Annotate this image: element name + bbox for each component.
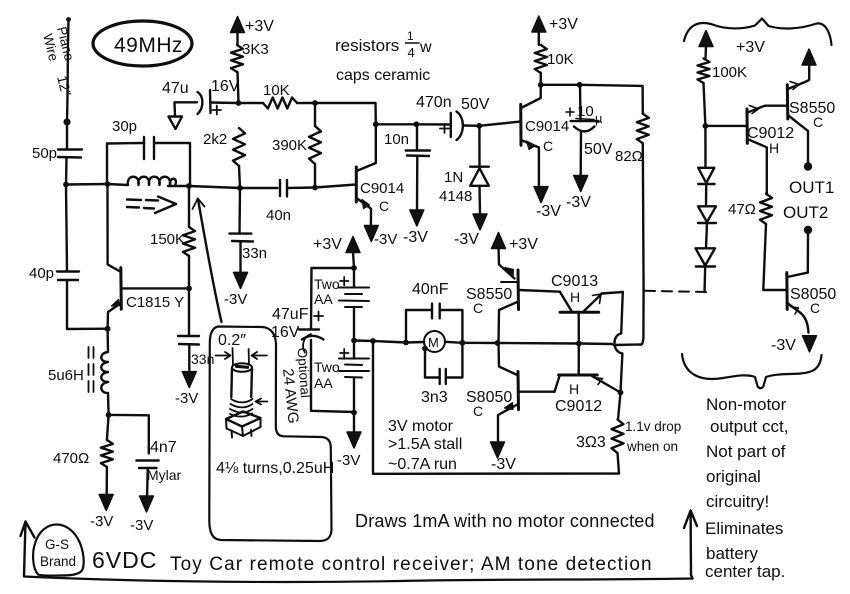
svg-text:470Ω: 470Ω bbox=[53, 450, 89, 467]
wire bias node to 10K bbox=[239, 102, 264, 104]
wire 2k2 to tank bbox=[239, 166, 240, 188]
svg-text:Non-motor: Non-motor bbox=[706, 395, 787, 414]
svg-text:50V: 50V bbox=[461, 96, 490, 113]
resistor 10K stage2 bbox=[535, 45, 547, 73]
node 5u6H bottom bbox=[106, 412, 112, 418]
resistor 82R bbox=[637, 114, 649, 144]
svg-text:OUT2: OUT2 bbox=[783, 203, 828, 222]
node OUT2 bbox=[804, 226, 812, 234]
label 50V stage2 bbox=[584, 141, 613, 158]
svg-text:Toy Car remote control receive: Toy Car remote control receiver; AM tone… bbox=[170, 554, 653, 575]
label C9012 output bbox=[747, 125, 794, 142]
label 49MHz text bbox=[114, 34, 183, 57]
capacitor 10n plates bbox=[406, 151, 430, 157]
label 4148 bbox=[439, 188, 472, 205]
svg-text:-3V: -3V bbox=[536, 203, 561, 220]
node 10K/390K bbox=[312, 100, 318, 106]
transistor Q9 emitter arrow bbox=[788, 67, 809, 90]
inductor 5u6H coil bbox=[101, 329, 108, 415]
svg-text:C: C bbox=[543, 138, 553, 154]
transistor Q7 C9012 emitter arrow bbox=[592, 376, 621, 393]
wire battery bottom to -3V bbox=[353, 413, 355, 434]
power -3V arrow 33n second bbox=[182, 372, 196, 388]
label H of C9012 bbox=[569, 381, 579, 397]
capacitor 47uF plate bbox=[299, 328, 319, 330]
svg-text:10: 10 bbox=[577, 103, 594, 120]
resistor 3K3 bbox=[231, 45, 243, 72]
wire node to diode chain bbox=[704, 126, 706, 168]
label note line7 bbox=[706, 544, 758, 563]
node 40nF left bbox=[403, 340, 409, 346]
node antenna joint bbox=[63, 118, 70, 125]
node tank / 150K bbox=[186, 183, 192, 189]
wire rail to driver node bbox=[462, 342, 497, 345]
wire detector node to Q2 base bbox=[479, 122, 521, 126]
node tank left bbox=[63, 182, 69, 188]
svg-text:C9012: C9012 bbox=[555, 398, 602, 415]
capacitor 470n straight plate bbox=[450, 113, 452, 137]
transistor Q6 C9013 bar bbox=[560, 311, 599, 314]
power +3V arrow stage2 bbox=[532, 16, 546, 45]
dashed link wire bbox=[645, 291, 708, 292]
label -3V output bbox=[771, 337, 796, 354]
svg-text:3Ω3: 3Ω3 bbox=[576, 434, 606, 451]
svg-text:-3V: -3V bbox=[224, 291, 247, 308]
label M motor bbox=[428, 335, 439, 350]
capacitor 10u plate bbox=[571, 120, 599, 122]
transistor Q10 S8050 bar bbox=[785, 273, 788, 310]
svg-text:AA: AA bbox=[314, 375, 333, 391]
svg-text:~0.7A run: ~0.7A run bbox=[388, 456, 457, 473]
wire diode to -3V bbox=[478, 186, 481, 214]
svg-text:µ: µ bbox=[595, 111, 603, 126]
transistor Q6 C9013 collector bbox=[578, 312, 580, 343]
label note line8 bbox=[705, 562, 785, 581]
wire 470ohm to -3V bbox=[105, 467, 108, 497]
wire tank left to 30p-left node bbox=[66, 183, 107, 186]
label draws 1mA bbox=[355, 511, 655, 531]
transistor Q3 collector bbox=[108, 184, 122, 272]
wire rail to 40nF node bbox=[373, 341, 406, 343]
capacitor 10u drop bbox=[579, 85, 582, 121]
svg-text:H: H bbox=[569, 381, 579, 397]
node 100K diode base bbox=[703, 123, 709, 129]
inductor 5u6H core bars (dashed) bbox=[89, 347, 94, 393]
svg-text:+3V: +3V bbox=[245, 18, 274, 35]
border bottom wavy line bbox=[24, 577, 693, 582]
label + battery B1 bbox=[340, 277, 349, 285]
label -3V 10n bbox=[403, 229, 428, 246]
svg-text:1: 1 bbox=[407, 29, 414, 43]
node pair emitters bbox=[618, 390, 624, 396]
wire antenna to C 50p bbox=[66, 124, 68, 149]
capacitor 40nF plates bbox=[432, 304, 440, 319]
svg-text:3K3: 3K3 bbox=[242, 41, 269, 58]
label 24 AWG (rotated) bbox=[279, 368, 302, 425]
transistor Q8 C9012 bar bbox=[746, 109, 749, 143]
label S8550 driver bbox=[466, 286, 512, 303]
label C9012 pair bbox=[555, 398, 602, 415]
label 47R bbox=[728, 201, 756, 218]
diode D3 triangle bbox=[698, 206, 716, 222]
label +3V battery bbox=[313, 236, 342, 253]
ground symbol (open triangle) bbox=[169, 117, 183, 130]
transistor Q6 C9013 emitter arrow bbox=[584, 292, 623, 311]
wire collector node right bbox=[541, 84, 580, 86]
svg-text:C: C bbox=[379, 198, 389, 214]
label C of S8050 output bbox=[810, 300, 820, 316]
svg-text:-3V: -3V bbox=[491, 456, 516, 473]
transistor Q2 emitter with arrow bbox=[521, 140, 539, 187]
pointer arrow to winding bbox=[256, 399, 268, 405]
label -3V 33n second bbox=[175, 390, 198, 407]
wire to 82R corner bbox=[580, 85, 643, 114]
svg-text:12″: 12″ bbox=[54, 74, 75, 98]
wire collector to 10n node bbox=[376, 123, 417, 125]
svg-text:caps ceramic: caps ceramic bbox=[336, 67, 430, 84]
diode D1 1N4148 cathode bar bbox=[470, 165, 489, 167]
svg-text:H: H bbox=[570, 289, 580, 305]
node Q2 collector bbox=[538, 82, 544, 88]
coil winding turns bbox=[230, 399, 253, 417]
label +3V stage2 bbox=[549, 16, 578, 33]
label H of C9013 bbox=[570, 289, 580, 305]
svg-text:0.2″: 0.2″ bbox=[218, 332, 246, 349]
label C of S8550 output bbox=[813, 114, 823, 130]
label 3V motor bbox=[388, 418, 454, 435]
node 3n3 left bbox=[422, 346, 428, 352]
label note line6 bbox=[705, 519, 783, 538]
label -3V S8050 driver bbox=[491, 456, 516, 473]
label S8050 driver bbox=[466, 389, 512, 406]
svg-text:40nF: 40nF bbox=[412, 281, 449, 298]
label C9013 bbox=[551, 273, 598, 290]
coil base block bbox=[226, 412, 261, 438]
capacitor 33n second drop bbox=[188, 288, 190, 336]
svg-text:battery: battery bbox=[706, 544, 758, 563]
transistor Q8 collector bbox=[747, 139, 767, 194]
label note line5 bbox=[706, 492, 769, 511]
label 150K bbox=[150, 231, 185, 248]
label C of S8550 driver bbox=[473, 300, 483, 316]
wire to 40n cap bbox=[240, 187, 278, 189]
transistor Q9 collector bbox=[788, 115, 808, 163]
wire 3R3 to return rail bbox=[373, 341, 619, 474]
wire 82R down to rail bbox=[641, 143, 643, 344]
label Two AA second bbox=[314, 359, 340, 391]
motor M1 circle bbox=[424, 331, 445, 352]
wire D4 to dashed bbox=[703, 267, 706, 293]
svg-text:Eliminates: Eliminates bbox=[705, 519, 783, 538]
label -3V battery bbox=[337, 452, 360, 469]
wire antenna vertical bbox=[67, 21, 69, 120]
wire 3K3 to node bbox=[238, 72, 239, 103]
label note line1 bbox=[706, 395, 787, 414]
label 50V top bbox=[461, 96, 490, 113]
label Q1 C9014 bbox=[360, 180, 404, 197]
wire to Q1 base bbox=[315, 185, 356, 188]
svg-text:82Ω: 82Ω bbox=[615, 148, 643, 165]
resistor 10K first stage bbox=[263, 98, 297, 109]
label + of 470n bbox=[440, 124, 449, 133]
wire 4n7 to -3V bbox=[146, 468, 149, 497]
label -3V 470ohm bbox=[90, 513, 113, 530]
transistor Q3 emitter with arrow bbox=[108, 300, 121, 329]
svg-text:47Ω: 47Ω bbox=[728, 201, 756, 218]
svg-text:M: M bbox=[428, 335, 439, 350]
pointer arrow to note bbox=[684, 511, 697, 579]
svg-text:-3V: -3V bbox=[130, 517, 153, 534]
wire OUT2 to S8050 bbox=[807, 234, 810, 273]
label +3V far right bbox=[736, 39, 765, 56]
resistor 150K bbox=[183, 186, 195, 288]
brace bottom output cct bbox=[682, 354, 822, 388]
wire to 4n7 bbox=[109, 415, 149, 454]
label title bbox=[170, 554, 653, 575]
svg-text:4148: 4148 bbox=[439, 188, 472, 205]
node collector wire bbox=[373, 121, 379, 127]
svg-text:+3V: +3V bbox=[313, 236, 342, 253]
label + battery B2 bbox=[340, 349, 349, 357]
label + of 47uF bbox=[314, 312, 323, 321]
label C of S8050 driver bbox=[473, 403, 483, 419]
svg-text:w: w bbox=[419, 39, 432, 56]
capacitor 40p bbox=[57, 272, 79, 281]
label +10u underlined bbox=[566, 103, 603, 126]
capacitor 10u curved plate bbox=[574, 127, 594, 132]
svg-text:AA: AA bbox=[314, 291, 333, 307]
resistor 3R3 bbox=[612, 393, 624, 454]
wire tank node down to 40p bbox=[66, 186, 67, 271]
node 40nF right bbox=[460, 340, 466, 346]
capacitor 33n first (from tank node) bbox=[238, 188, 241, 234]
svg-text:circuitry!: circuitry! bbox=[706, 492, 769, 511]
wire 47u to bias node bbox=[211, 101, 237, 104]
transistor Q7 C9012 base slant bbox=[555, 376, 560, 392]
label 1.1v drop bbox=[625, 419, 681, 434]
svg-text:47u: 47u bbox=[162, 80, 189, 97]
diode D2 bar bbox=[698, 183, 714, 185]
wire base C1815 bbox=[122, 287, 189, 289]
diode D4 triangle bbox=[696, 248, 716, 265]
svg-text:Draws 1mA with no motor connec: Draws 1mA with no motor connected bbox=[355, 511, 655, 531]
label -3V Q2 bbox=[536, 203, 561, 220]
label -3V diode bbox=[454, 231, 479, 248]
transistor Q1 C9014 bar bbox=[355, 167, 358, 202]
svg-text:-3V: -3V bbox=[374, 231, 397, 248]
node 10u branch bbox=[577, 82, 583, 88]
svg-text:47uF: 47uF bbox=[272, 306, 309, 323]
transistor Q10 emitter arrow bbox=[787, 303, 808, 333]
label OUT1 bbox=[789, 178, 834, 197]
label 100K bbox=[712, 64, 747, 81]
capacitor 47uF curved plate bbox=[302, 336, 324, 340]
svg-text:33n: 33n bbox=[242, 245, 267, 262]
transistor Q5 emitter bbox=[498, 403, 518, 444]
node driver collectors bbox=[495, 340, 501, 346]
svg-text:50V: 50V bbox=[584, 141, 613, 158]
wire 100K to node bbox=[704, 83, 706, 126]
label 33n first bbox=[242, 245, 267, 262]
label 3n3 bbox=[421, 389, 448, 406]
svg-text:1N: 1N bbox=[444, 169, 463, 186]
logo G-S brand blob bbox=[33, 525, 84, 576]
svg-text:-3V: -3V bbox=[566, 194, 591, 211]
wire 10K2 to node bbox=[540, 73, 542, 85]
svg-text:4n7: 4n7 bbox=[150, 439, 177, 456]
antenna piano-wire top terminal bbox=[66, 17, 71, 22]
svg-text:2k2: 2k2 bbox=[203, 131, 227, 148]
capacitor 50p bbox=[58, 150, 82, 158]
node battery top bbox=[351, 265, 357, 271]
tuning arrow through L1 (dashed shaft) bbox=[127, 197, 176, 214]
transistor Q9 S8550 bar bbox=[786, 85, 790, 119]
label -3V Q1 bbox=[374, 231, 397, 248]
label 4-1/8 turns 0.25uH bbox=[216, 460, 334, 477]
node pair collectors bbox=[576, 341, 582, 347]
power -3V arrow diode bbox=[473, 214, 487, 230]
node emitter / 40p rail bbox=[105, 326, 111, 332]
capacitor 3n3 plates bbox=[440, 369, 446, 384]
svg-text:4⅛ turns,0.25uH: 4⅛ turns,0.25uH bbox=[216, 460, 334, 477]
power +3V arrow battery bbox=[346, 237, 360, 269]
svg-text:G-S: G-S bbox=[45, 537, 69, 552]
inductor L1 tank coil bbox=[108, 177, 190, 186]
wire 33n first to -3V bbox=[239, 242, 241, 274]
label note line4 bbox=[706, 467, 761, 486]
transistor Q7 C9012 bar bbox=[559, 374, 598, 377]
diode D1 1N4148 triangle bbox=[470, 168, 489, 186]
capacitor 3n3 loop bbox=[425, 343, 462, 378]
battery B1 two AA cells bbox=[339, 268, 369, 341]
capacitor 4n7 plates bbox=[136, 461, 158, 469]
label +3V S8550 bbox=[509, 236, 538, 253]
svg-text:+3V: +3V bbox=[509, 236, 538, 253]
svg-text:output cct,: output cct, bbox=[710, 417, 788, 436]
power arrow S8550 out bbox=[802, 49, 816, 65]
capacitor 30p plates bbox=[144, 137, 154, 159]
power -3V arrow battery bbox=[347, 432, 361, 448]
label -3V 4n7 bbox=[130, 517, 153, 534]
node tank 33n branch bbox=[237, 185, 243, 191]
wire 47R to S8050 base bbox=[763, 224, 786, 290]
wire motor to 40nF right node bbox=[445, 342, 462, 343]
label note line2 bbox=[710, 417, 788, 436]
resistor 100K bbox=[698, 59, 710, 84]
svg-text:C9014: C9014 bbox=[525, 118, 569, 135]
label 4n7 bbox=[150, 439, 177, 456]
svg-text:10n: 10n bbox=[384, 131, 409, 148]
diode D3 bar bbox=[698, 222, 716, 224]
label resistors quarter W bbox=[335, 29, 432, 60]
label 10K stage2 bbox=[547, 51, 574, 68]
wire 33n second to -3V bbox=[188, 345, 190, 371]
wire 50p to tank node bbox=[65, 158, 68, 185]
svg-text:10K: 10K bbox=[547, 51, 574, 68]
label >1.5A stall bbox=[388, 436, 462, 453]
wire 40n to 390K node bbox=[288, 186, 316, 189]
label Brand bbox=[40, 554, 76, 569]
svg-text:3V motor: 3V motor bbox=[388, 418, 454, 435]
label 0.2 inch bbox=[218, 332, 246, 349]
label 16V of 47uF bbox=[271, 324, 300, 341]
transistor Q5 S8050 bar bbox=[517, 372, 521, 410]
optional 47uF branch wire bbox=[311, 268, 354, 412]
label Piano Wire 12in (rotated) bbox=[40, 25, 77, 98]
svg-text:-3V: -3V bbox=[403, 229, 428, 246]
bracket optional bbox=[303, 334, 311, 353]
label 47uF bbox=[272, 306, 309, 323]
svg-text:16V: 16V bbox=[271, 324, 300, 341]
transistor Q1 collector bbox=[357, 124, 376, 171]
wire 40p to emitter rail bbox=[67, 280, 108, 329]
svg-text:49MHz: 49MHz bbox=[114, 34, 183, 57]
resistor 47R bbox=[760, 194, 772, 224]
node 150K / base bbox=[186, 286, 192, 292]
power -3V arrow 10u bbox=[574, 176, 588, 192]
label C9014 stage2 bbox=[525, 118, 569, 135]
transistor Q4 S8550 collector bbox=[499, 302, 519, 344]
label C stage2 bbox=[543, 138, 553, 154]
svg-text:390K: 390K bbox=[272, 137, 307, 154]
wire node to C9012 base bbox=[705, 125, 746, 127]
transistor Q5 base wire bbox=[519, 391, 555, 393]
svg-text:H: H bbox=[769, 140, 779, 156]
svg-text:>1.5A stall: >1.5A stall bbox=[388, 436, 462, 453]
svg-text:10K: 10K bbox=[263, 82, 290, 99]
svg-text:C9014: C9014 bbox=[360, 180, 404, 197]
svg-text:-3V: -3V bbox=[337, 452, 360, 469]
label 30p bbox=[112, 118, 137, 135]
label 5u6H bbox=[48, 367, 84, 384]
wire battery mid to motor rail bbox=[354, 339, 373, 342]
svg-text:30p: 30p bbox=[112, 118, 137, 135]
label Q1 C bbox=[379, 198, 389, 214]
transistor Q10 collector bbox=[787, 273, 808, 277]
wire collector feed bbox=[315, 103, 376, 124]
transistor Q4 S8550 bar bbox=[517, 270, 521, 310]
svg-text:center tap.: center tap. bbox=[705, 562, 785, 581]
svg-text:-3V: -3V bbox=[175, 390, 198, 407]
brace top +3V bbox=[684, 19, 832, 46]
node motor-return branch bbox=[370, 338, 376, 344]
label C1815 Y bbox=[126, 294, 184, 311]
power -3V arrow 470ohm bbox=[99, 495, 113, 511]
svg-text:C: C bbox=[473, 403, 483, 419]
svg-text:Two: Two bbox=[314, 359, 340, 375]
label 82R bbox=[615, 148, 643, 165]
svg-text:40p: 40p bbox=[29, 265, 54, 282]
label when on bbox=[626, 439, 678, 454]
label G-S bbox=[45, 537, 69, 552]
dimension arrows 0.2in bbox=[216, 348, 268, 365]
svg-text:150K: 150K bbox=[150, 231, 185, 248]
label S8050 output bbox=[790, 286, 836, 303]
power +3V arrow S8550 bbox=[492, 233, 506, 249]
svg-text:-3V: -3V bbox=[454, 231, 479, 248]
svg-text:OUT1: OUT1 bbox=[789, 178, 834, 197]
label note line3 bbox=[706, 442, 786, 461]
wire rail under hop bbox=[579, 344, 641, 346]
label OUT2 bbox=[783, 203, 828, 222]
label 10K first stage bbox=[263, 82, 290, 99]
svg-text:Two: Two bbox=[314, 276, 340, 292]
label oscillator 49MHz ellipse bbox=[93, 21, 192, 66]
label 3R3 bbox=[576, 434, 606, 451]
capacitor 47u straight plate bbox=[209, 90, 212, 113]
label 50p bbox=[32, 145, 57, 162]
resistor 470ohm bbox=[101, 415, 113, 467]
